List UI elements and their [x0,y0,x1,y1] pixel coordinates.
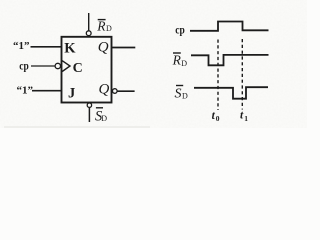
svg-text:Q: Q [98,40,109,56]
svg-text:“1”: “1” [17,85,34,97]
svg-text:Q: Q [99,81,110,97]
svg-text:D: D [106,24,112,33]
svg-text:D: D [101,114,107,123]
svg-text:D: D [181,59,187,68]
svg-text:K: K [64,41,76,57]
svg-text:R: R [172,53,182,68]
svg-text:S: S [175,87,182,102]
svg-text:R: R [96,18,106,33]
svg-text:D: D [182,91,188,100]
svg-text:0: 0 [216,114,220,123]
svg-text:J: J [68,86,75,102]
svg-text:C: C [73,61,83,76]
svg-text:cp: cp [19,58,29,72]
svg-text:“1”: “1” [13,40,30,52]
svg-text:1: 1 [244,114,248,123]
svg-text:cp: cp [175,22,185,36]
